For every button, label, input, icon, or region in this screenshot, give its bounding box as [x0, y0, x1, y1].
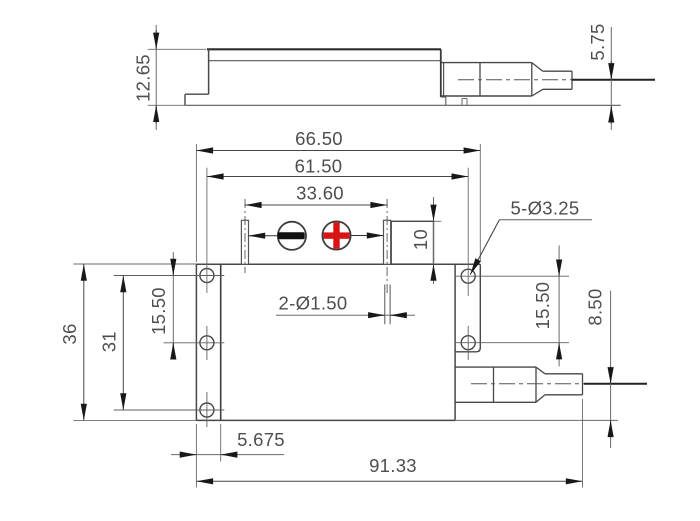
svg-text:8.50: 8.50: [584, 288, 605, 325]
svg-text:5.675: 5.675: [237, 429, 285, 450]
svg-text:15.50: 15.50: [532, 282, 553, 330]
svg-text:91.33: 91.33: [369, 455, 417, 476]
svg-text:5.75: 5.75: [587, 23, 608, 60]
svg-text:2-Ø1.50: 2-Ø1.50: [279, 292, 348, 313]
svg-text:61.50: 61.50: [295, 155, 343, 176]
svg-text:33.60: 33.60: [296, 183, 344, 204]
svg-text:5-Ø3.25: 5-Ø3.25: [511, 197, 580, 218]
svg-text:15.50: 15.50: [148, 287, 169, 335]
svg-text:36: 36: [59, 323, 80, 344]
svg-text:66.50: 66.50: [295, 128, 343, 149]
svg-text:10: 10: [410, 229, 431, 250]
svg-text:31: 31: [98, 331, 119, 352]
svg-text:12.65: 12.65: [132, 54, 153, 102]
